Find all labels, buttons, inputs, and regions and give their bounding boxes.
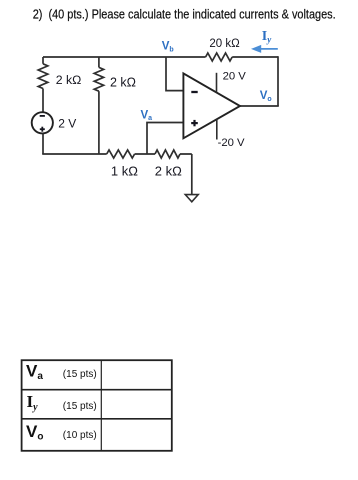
wire output — [240, 105, 279, 107]
svg-text:Iy: Iy — [262, 29, 272, 44]
resistor R1 2 kOhm (left vertical) — [38, 64, 48, 89]
svg-text:(15 pts): (15 pts) — [63, 401, 97, 412]
svg-text:Vo: Vo — [26, 422, 43, 443]
op-amp U1 — [183, 73, 240, 138]
supply pin -20V — [216, 119, 218, 139]
svg-text:20 V: 20 V — [223, 70, 247, 82]
wire to ground — [191, 154, 193, 195]
svg-text:Va: Va — [141, 109, 153, 122]
svg-text:2) (40 pts.) Please calculate: 2) (40 pts.) Please calculate the indica… — [33, 6, 336, 21]
svg-text:(15 pts): (15 pts) — [63, 369, 97, 380]
svg-text:2 kΩ: 2 kΩ — [56, 73, 82, 87]
resistor R2 2 kOhm (middle vertical) — [94, 67, 103, 91]
svg-text:20 kΩ: 20 kΩ — [209, 38, 240, 50]
wire bottom rail — [42, 153, 192, 155]
svg-text:Vb: Vb — [162, 41, 174, 54]
svg-text:Iy: Iy — [27, 392, 39, 413]
ground — [185, 195, 198, 202]
wire between R1 and source — [42, 89, 44, 113]
svg-text:Va: Va — [26, 361, 43, 382]
wire left branch top stub — [42, 57, 44, 64]
svg-text:2 kΩ: 2 kΩ — [155, 164, 182, 179]
wire top rail — [43, 56, 278, 58]
svg-text:1 kΩ: 1 kΩ — [111, 164, 138, 179]
wire R2 bottom stub — [98, 91, 100, 154]
resistor R4 1 kOhm — [107, 150, 135, 158]
resistor 20 kOhm (feedback) — [206, 53, 233, 61]
svg-text:(10 pts): (10 pts) — [63, 430, 97, 441]
wire Vb to inverting input — [166, 57, 183, 91]
svg-text:2 V: 2 V — [58, 116, 76, 130]
wire source to bottom rail — [42, 133, 44, 154]
wire R2 top stub — [98, 57, 100, 67]
svg-text:-20 V: -20 V — [218, 137, 245, 149]
answer table grid — [22, 360, 172, 451]
wire Va to non-inverting input — [147, 123, 183, 155]
current arrow Iy — [251, 45, 278, 53]
svg-text:Vo: Vo — [260, 90, 272, 103]
supply pin +20V — [216, 73, 218, 93]
wire right vertical (output to feedback) — [277, 56, 279, 106]
svg-text:2 kΩ: 2 kΩ — [110, 75, 136, 89]
resistor R5 2 kOhm (bottom) — [155, 150, 180, 158]
voltage source V1 2V — [32, 112, 53, 133]
